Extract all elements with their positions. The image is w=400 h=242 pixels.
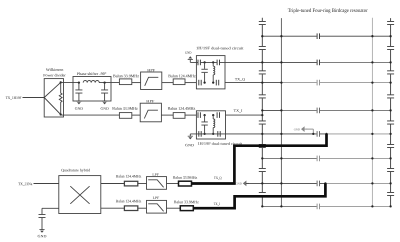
junction left column rail 6 <box>261 157 263 159</box>
label TX_Q top chain <box>235 77 245 81</box>
wire HPF to balun row1 <box>162 82 173 84</box>
quadrature hybrid box <box>59 176 101 214</box>
junction left ring rail 2 <box>280 61 282 63</box>
left inner ring conductor <box>280 18 282 206</box>
node thick TX_Q joins rail 5 <box>325 133 327 135</box>
ground dual-tuned circuit 2 <box>189 134 191 136</box>
balun 124.4MHz box I row <box>124 206 137 211</box>
svg-text:HPF: HPF <box>146 99 154 103</box>
svg-text:Balun 124.4MHz: Balun 124.4MHz <box>168 74 196 78</box>
junction right column rail 7 <box>389 182 391 184</box>
ground phase shifter left <box>76 101 81 104</box>
shunt inductor dual-tuned 1 <box>212 62 214 66</box>
input label TX_1H19F <box>6 96 22 100</box>
resonator title <box>288 7 368 13</box>
capacitor C2b upper branch <box>217 112 220 118</box>
svg-text:Phase shifter -90°: Phase shifter -90° <box>77 72 107 76</box>
svg-text:TX_Q: TX_Q <box>214 176 222 180</box>
rail 8 <box>262 205 318 207</box>
svg-text:GND: GND <box>100 107 108 111</box>
rail 1 <box>262 35 390 37</box>
junction left ring rail 7 <box>280 182 282 184</box>
rail 6 <box>262 157 318 159</box>
HPF response curve row1 <box>145 77 159 86</box>
HPF box row1 <box>141 72 162 90</box>
node Wilkinson bottom output <box>60 113 62 115</box>
junction right ring rail 8 <box>371 205 373 207</box>
thick wire TX_I to resonator <box>193 183 325 208</box>
rail 7 <box>246 182 325 184</box>
wire HPF to balun row2 <box>161 114 173 116</box>
junction left column rail 2 <box>261 61 263 63</box>
LPF label I row <box>153 196 160 200</box>
svg-text:TX_1H19F: TX_1H19F <box>6 96 22 100</box>
junction right ring rail 2 <box>371 61 373 63</box>
capacitor right column 5 <box>387 121 394 125</box>
rail 3 right part <box>262 82 281 84</box>
input label TX_23Na <box>18 182 32 186</box>
junction right column rail 8 <box>389 205 391 207</box>
svg-text:Balun 124.4MHz: Balun 124.4MHz <box>116 199 142 203</box>
right capacitor column <box>390 18 392 206</box>
ground arrow rail 7 <box>243 181 249 187</box>
capacitor rail 5 <box>317 131 320 137</box>
junction left column rail 5 <box>261 133 263 135</box>
svg-text:LPF: LPF <box>153 196 160 200</box>
LPF label Q row <box>152 173 159 177</box>
phase shifter box <box>73 77 111 102</box>
LPF box I row <box>147 200 167 213</box>
quadrature hybrid label <box>61 168 90 172</box>
HPF response curve row2 <box>144 110 158 118</box>
wire LPF to balun I row <box>167 207 181 209</box>
ground dual-tuned circuit 1 <box>185 51 192 55</box>
node lower-right dual-tuned 1 <box>212 81 214 83</box>
balun 124.4MHz box row2 <box>173 113 185 119</box>
capacitor rail 3 <box>317 80 320 86</box>
svg-text:GND: GND <box>236 182 242 185</box>
balun 33.9MHz label I row <box>174 200 199 204</box>
node thick TX_I joins rail 7 <box>324 182 326 184</box>
capacitor left column 8 <box>259 192 266 196</box>
wire through phase shifter <box>99 82 119 84</box>
ground phase shifter right <box>102 101 107 104</box>
node Wilkinson top output <box>60 81 62 83</box>
wire lower branch dual-tuned 2 to rail5 <box>190 133 262 135</box>
svg-text:TX_23Na: TX_23Na <box>18 182 32 186</box>
capacitor left column 3 <box>259 70 266 74</box>
capacitor rail 1 <box>317 33 320 39</box>
right inner ring conductor <box>371 18 373 207</box>
capacitor on quadrature ground leg <box>39 214 46 218</box>
rail 5 right part <box>262 133 327 135</box>
junction right column rail 1 <box>389 35 391 37</box>
svg-text:Balun 124.4MHz: Balun 124.4MHz <box>168 106 196 110</box>
wire hybrid to balun I row <box>101 207 125 209</box>
dual-tuned circuit 1 box <box>196 56 225 89</box>
isolation resistor in Wilkinson divider <box>59 82 62 114</box>
capacitor right column 8 <box>387 192 394 196</box>
junction left column rail 4 <box>261 109 263 111</box>
shunt capacitor dual-tuned 1 <box>204 62 206 82</box>
LPF box Q row <box>147 177 167 190</box>
HPF label row2 <box>146 99 154 103</box>
LPF response curve I row <box>148 204 163 212</box>
ground label rail 7 <box>236 182 242 185</box>
wire balun to dual-tuned circuit 2 <box>185 114 196 116</box>
svg-text:Balun 33.9MHz: Balun 33.9MHz <box>173 175 198 179</box>
svg-text:GND: GND <box>185 51 192 55</box>
wire balun to HPF row1 <box>132 82 141 84</box>
inductor in phase shifter <box>83 81 99 83</box>
node lower-right dual-tuned 2 <box>212 133 214 135</box>
capacitor left column 5 <box>259 121 266 125</box>
ground quadrature hybrid <box>39 230 44 233</box>
capacitor right column 6 <box>387 144 394 148</box>
junction left column rail 3 <box>261 81 263 83</box>
capacitor phase shifter left <box>78 83 80 102</box>
capacitor right column 3 <box>387 70 394 74</box>
junction right column rail 5 <box>389 133 391 135</box>
svg-text:TX_I: TX_I <box>234 109 243 113</box>
balun 124.4MHz label row1 <box>168 74 196 78</box>
wire Wilkinson to balun row2 <box>61 114 120 116</box>
svg-text:Balun 33.9MHz: Balun 33.9MHz <box>174 200 199 204</box>
capacitor C2d lower branch <box>217 131 220 137</box>
node lower-left dual-tuned 2 <box>203 133 205 135</box>
junction right ring rail 1 <box>371 35 373 37</box>
Wilkinson power divider box <box>44 79 63 117</box>
junction left ring rail 5 <box>280 133 282 135</box>
svg-text:TX_Q: TX_Q <box>235 77 245 81</box>
quadrature hybrid cross <box>70 186 89 204</box>
junction left ring rail 3 <box>280 81 282 83</box>
capacitor rail 2 <box>317 60 320 66</box>
wire LPF to balun Q row <box>167 183 179 185</box>
capacitor C1c lower branch <box>198 80 201 86</box>
capacitor C1d lower branch <box>216 80 219 86</box>
capacitor C2a upper branch <box>198 112 201 118</box>
dual-tuned circuit 2 label <box>197 142 242 146</box>
node TX_I to left column <box>261 114 263 116</box>
phase shifter label <box>77 72 107 76</box>
wire Wilkinson to phase shifter <box>61 82 79 84</box>
balun 33.9MHz label Q row <box>173 175 198 179</box>
HPF label row1 <box>147 68 155 72</box>
capacitor C1b upper branch <box>217 60 220 66</box>
dual-tuned circuit 2 box <box>196 111 225 139</box>
junction right ring rail 6 <box>371 157 373 159</box>
rail 4 <box>262 109 281 111</box>
junction right ring rail 7 <box>371 182 373 184</box>
junction right column rail 2 <box>389 61 391 63</box>
capacitor left column 7 <box>259 168 266 172</box>
wire TX_I upper branch dual-tuned 2 <box>226 114 263 116</box>
wire balun to HPF row2 <box>132 114 140 116</box>
wire hybrid to balun Q row <box>101 183 125 185</box>
node lower-left dual-tuned 1 <box>203 81 205 83</box>
junction right column rail 4 <box>389 109 391 111</box>
junction right column rail 3 <box>389 81 391 83</box>
svg-text:LPF: LPF <box>152 173 159 177</box>
capacitor phase shifter right <box>104 83 106 102</box>
svg-text:GND: GND <box>185 144 194 148</box>
balun 33.9MHz box Q row <box>179 181 192 186</box>
svg-text:Quadrature hybrid: Quadrature hybrid <box>61 168 90 172</box>
ground stub rail 5 <box>307 128 314 130</box>
junction right column rail 6 <box>389 157 391 159</box>
capacitor rail 8 <box>317 204 320 210</box>
svg-text:Balun 124.4MHz: Balun 124.4MHz <box>116 174 142 178</box>
capacitor left column 6 <box>259 144 266 148</box>
node upper-right dual-tuned 2 <box>212 114 214 116</box>
junction right ring rail 4 <box>371 109 373 111</box>
balun 33.9MHz label row1 <box>113 74 139 78</box>
thick wire TX_Q to resonator <box>192 134 327 184</box>
balun 33.9MHz box row1 <box>119 79 131 85</box>
Wilkinson divider triangle <box>44 82 61 114</box>
capacitor rail 7 <box>317 181 320 187</box>
svg-text:Power divider: Power divider <box>43 73 66 77</box>
capacitor left column 1 <box>259 21 266 25</box>
balun 124.4MHz label I row <box>116 199 142 203</box>
capacitor right column 1 <box>387 21 394 25</box>
label TX_I bottom chain <box>214 202 220 206</box>
svg-text:Wilkinson: Wilkinson <box>46 68 64 72</box>
capacitor left column 4 <box>259 94 266 98</box>
capacitor C1a upper branch <box>198 60 201 66</box>
junction left column rail 7 <box>261 182 263 184</box>
junction left ring rail 6 <box>280 157 282 159</box>
dual-tuned circuit 1 label <box>196 46 244 50</box>
junction left ring rail 8 <box>280 205 282 207</box>
svg-text:TX_I: TX_I <box>214 202 220 206</box>
svg-text:GND: GND <box>38 235 47 239</box>
label TX_Q bottom chain <box>214 176 222 180</box>
capacitor rail 6 <box>317 156 320 162</box>
capacitor rail 4 <box>317 108 320 114</box>
wire balun to dual-tuned circuit 1 <box>185 82 196 84</box>
junction left ring rail 4 <box>280 109 282 111</box>
balun 33.9MHz box I row <box>180 206 193 211</box>
HPF box row2 <box>140 103 161 122</box>
svg-text:Balun 33.9MHz: Balun 33.9MHz <box>112 106 138 110</box>
node phase shifter right <box>103 81 105 83</box>
wire TX_Q to resonator rail3 <box>225 82 262 84</box>
wire balun to LPF I row <box>138 207 147 209</box>
wire input to Wilkinson <box>23 97 45 99</box>
svg-text:1H/19F dual-tuned circuit: 1H/19F dual-tuned circuit <box>196 46 244 50</box>
wire balun to LPF Q row <box>138 183 147 185</box>
rail 2 right part <box>262 61 318 63</box>
shunt capacitor dual-tuned 2 <box>204 115 206 134</box>
junction right ring rail 5 <box>371 133 373 135</box>
balun 124.4MHz label row2 <box>168 106 196 110</box>
balun 124.4MHz box Q row <box>124 181 137 186</box>
wire upper branch dual-tuned 1 to rail2 <box>190 61 262 63</box>
balun 124.4MHz box row1 <box>173 79 185 85</box>
junction left column rail 1 <box>261 35 263 37</box>
capacitor right column 4 <box>387 94 394 98</box>
junction left ring rail 1 <box>280 35 282 37</box>
Wilkinson power divider label <box>46 68 64 72</box>
shunt inductor dual-tuned 2 <box>212 115 214 119</box>
balun 33.9MHz label row2 <box>112 106 138 110</box>
svg-text:GND: GND <box>75 107 83 111</box>
capacitor C2c lower branch <box>198 131 201 137</box>
wire input to quadrature hybrid <box>34 183 59 185</box>
left capacitor column <box>261 18 263 207</box>
node phase shifter left <box>78 81 80 83</box>
balun 33.9MHz box row2 <box>119 113 131 119</box>
capacitor left column 2 <box>259 46 266 50</box>
svg-text:Triple-tuned Four-ring Birdcag: Triple-tuned Four-ring Birdcage resonato… <box>288 7 368 13</box>
junction right ring rail 3 <box>371 81 373 83</box>
svg-text:Balun 33.9MHz: Balun 33.9MHz <box>113 74 139 78</box>
node upper-left dual-tuned 2 <box>203 114 205 116</box>
junction left column rail 8 <box>261 205 263 207</box>
node upper-left dual-tuned 1 <box>203 61 205 63</box>
wire quadrature hybrid to ground <box>42 207 59 209</box>
LPF response curve Q row <box>148 180 163 188</box>
capacitor right column 2 <box>387 46 394 50</box>
svg-text:GND: GND <box>294 128 300 131</box>
node upper-right dual-tuned 1 <box>212 61 214 63</box>
label TX_I top chain <box>234 109 243 113</box>
balun 124.4MHz label Q row <box>116 174 142 178</box>
capacitor right column 7 <box>387 168 394 172</box>
